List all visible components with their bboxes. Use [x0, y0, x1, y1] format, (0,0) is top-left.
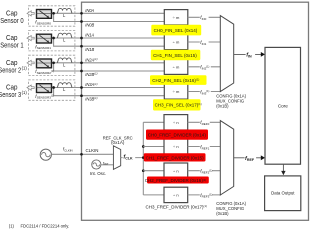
label fREF	[245, 154, 257, 162]
pin dot IN0A	[80, 12, 83, 15]
core box	[265, 47, 301, 164]
wire fREF0	[188, 121, 221, 123]
svg-text:CH2_FREF_DIVIDER (0x16)(1): CH2_FREF_DIVIDER (0x16)(1)	[145, 178, 207, 183]
svg-text:CH3_FREF_DIVIDER (0x17)(1): CH3_FREF_DIVIDER (0x17)(1)	[146, 204, 208, 209]
label fIN1	[200, 39, 209, 44]
mux REF_CLK_SRC	[113, 146, 120, 170]
svg-text:Sensor 2: Sensor 2	[0, 67, 21, 74]
divider box ÷n ch2	[164, 163, 188, 178]
plate arrow 2	[27, 60, 34, 65]
svg-text:Sensor 1: Sensor 1	[0, 43, 23, 50]
node dot 3	[52, 86, 55, 89]
svg-text:÷ n: ÷ n	[173, 144, 179, 149]
inductor L3	[57, 83, 72, 88]
oscillator source fCLKIN	[40, 149, 51, 160]
wire IN1B	[54, 38, 165, 46]
wire fREF3	[188, 194, 221, 196]
node dot 1	[52, 37, 55, 40]
svg-text:CH0_FIN_SEL (0x14): CH0_FIN_SEL (0x14)	[154, 28, 198, 33]
svg-text:÷ n: ÷ n	[173, 193, 179, 198]
svg-text:Cap: Cap	[6, 60, 18, 67]
wire int osc	[101, 164, 114, 166]
highlight CH1_FIN_SEL	[151, 50, 201, 60]
label fREF3	[200, 192, 212, 197]
highlight CH2_FREF_DIVIDER	[145, 177, 209, 184]
wire fIN out	[234, 53, 262, 55]
svg-text:(1): (1)	[22, 90, 28, 95]
int osc circle	[92, 160, 101, 169]
wire IN2B	[54, 63, 165, 71]
wire fREF2	[188, 170, 221, 172]
pin dot IN0B	[80, 20, 83, 23]
sensor dashed box 3	[29, 80, 75, 100]
plate arrow 1	[27, 36, 34, 41]
svg-text:(0x1A): (0x1A)	[111, 140, 125, 145]
svg-text:Cap: Cap	[6, 35, 18, 42]
svg-text:(1): (1)	[22, 66, 28, 71]
svg-text:÷ n: ÷ n	[173, 120, 179, 125]
svg-text:Sensor 3: Sensor 3	[0, 92, 21, 99]
wire fREF out	[234, 157, 262, 159]
data output box	[265, 176, 301, 211]
divider box ÷n ch0	[164, 115, 188, 130]
svg-text:Data Output: Data Output	[271, 190, 295, 195]
svg-text:CH1_FIN_SEL (0x15): CH1_FIN_SEL (0x15)	[153, 53, 197, 58]
label fIN0	[200, 15, 209, 20]
inductor L2	[57, 58, 72, 63]
svg-text:IN1B: IN1B	[85, 47, 94, 52]
mux fREF	[220, 121, 233, 195]
svg-text:÷ n: ÷ n	[173, 168, 179, 173]
svg-text:(0x1B): (0x1B)	[216, 104, 229, 109]
wire CLKIN	[51, 153, 113, 155]
pin dot CLKIN	[80, 153, 83, 156]
sensor dashed box 0	[29, 6, 75, 26]
divider box ÷n ch1	[164, 139, 188, 154]
divider box ÷m ch2	[164, 59, 188, 74]
svg-text:FDC2114 / FDC2214 only.: FDC2114 / FDC2214 only.	[21, 223, 70, 228]
svg-text:IN0B: IN0B	[85, 22, 94, 27]
pin dot IN1B	[80, 45, 83, 48]
svg-text:÷ m: ÷ m	[173, 15, 180, 20]
pin dot IN3A	[80, 86, 83, 89]
label fREF1	[200, 144, 210, 149]
svg-text:Sensor 0: Sensor 0	[0, 18, 23, 25]
wire IN3B	[54, 88, 165, 96]
wire IN0A	[52, 12, 165, 14]
svg-text:(1): (1)	[9, 223, 15, 228]
mux fIN	[220, 16, 233, 92]
wire ÷n ch3 in	[143, 194, 164, 196]
wire IN3A	[52, 87, 165, 89]
svg-text:÷ m: ÷ m	[173, 89, 180, 94]
wire IN1A	[52, 37, 165, 39]
wire fCLK	[121, 157, 144, 159]
cap sensor 2 cell	[27, 55, 164, 75]
wire fIN2	[188, 66, 221, 68]
label fIN2	[200, 64, 211, 69]
divider box ÷n ch3	[164, 187, 188, 202]
pin dot IN1A	[80, 37, 83, 40]
arrow core to data output	[282, 164, 284, 171]
bus junction dots	[142, 145, 145, 148]
divider box ÷m ch0	[164, 10, 188, 25]
wire fIN1	[188, 41, 221, 43]
wire fIN3	[188, 91, 221, 93]
svg-text:Cap: Cap	[6, 10, 18, 17]
sensor dashed box 1	[29, 31, 75, 51]
wire IN0B	[54, 13, 165, 21]
wire ÷n ch0 in	[143, 121, 164, 123]
cap sensor 3 cell	[27, 80, 164, 100]
label fREF2	[200, 168, 212, 173]
highlight CH0_FREF_DIVIDER	[146, 130, 208, 140]
cap sensor 0 cell	[27, 6, 164, 26]
svg-text:÷ m: ÷ m	[173, 65, 180, 70]
highlight CH3_FIN_SEL	[153, 99, 202, 110]
svg-text:Cap: Cap	[6, 85, 18, 92]
svg-text:IN1A: IN1A	[85, 33, 94, 38]
cap sensor 1 cell	[27, 31, 164, 51]
wire ÷n ch1 in	[143, 146, 164, 148]
plate arrow 0	[27, 11, 34, 16]
sensor dashed box 2	[29, 55, 75, 75]
variable capacitor box 2	[37, 59, 52, 68]
pin dot IN3B	[80, 94, 83, 97]
wire ÷n ch2 in	[143, 170, 164, 172]
svg-text:Int. Osc.: Int. Osc.	[90, 171, 106, 176]
chip boundary	[82, 2, 309, 220]
variable capacitor box 3	[37, 84, 52, 93]
highlight CH0_FIN_SEL	[151, 25, 201, 36]
plate arrow 3	[27, 85, 34, 90]
inductor L0	[57, 8, 72, 13]
pin dot IN2A	[80, 61, 83, 64]
pin dot IN2B	[80, 70, 83, 73]
inductor L1	[57, 33, 72, 38]
label fREF0	[200, 120, 210, 125]
wire fIN0	[188, 16, 221, 18]
svg-text:CH2_FIN_SEL (0x16)(1): CH2_FIN_SEL (0x16)(1)	[152, 78, 199, 83]
svg-text:÷ m: ÷ m	[173, 40, 180, 45]
svg-text:Core: Core	[278, 104, 288, 109]
svg-text:IN0A: IN0A	[85, 8, 94, 13]
arrowhead fREF	[261, 155, 265, 160]
svg-text:CLKIN: CLKIN	[86, 148, 99, 153]
label fIN	[246, 50, 256, 58]
divider box ÷m ch3	[164, 84, 188, 99]
svg-text:CH3_FIN_SEL (0x17)(1): CH3_FIN_SEL (0x17)(1)	[155, 102, 202, 107]
highlight CH2_FIN_SEL	[150, 75, 207, 85]
wire fREF1	[188, 146, 221, 148]
label fCLK	[123, 153, 136, 160]
divider box ÷m ch1	[164, 34, 188, 49]
wire IN2A	[52, 62, 165, 64]
label fIN3	[200, 89, 211, 94]
node dot 0	[52, 12, 55, 15]
node dot 2	[52, 61, 55, 64]
arrowhead fIN	[261, 52, 265, 57]
highlight CH1_FREF_DIVIDER	[144, 153, 206, 161]
svg-text:CH1_FREF_DIVIDER (0x15): CH1_FREF_DIVIDER (0x15)	[146, 156, 205, 161]
svg-text:(0x1B): (0x1B)	[216, 211, 229, 216]
fCLK bus	[142, 122, 144, 195]
variable capacitor box 0	[37, 10, 52, 19]
variable capacitor box 1	[37, 34, 52, 43]
svg-text:CH0_FREF_DIVIDER (0x14): CH0_FREF_DIVIDER (0x14)	[148, 133, 207, 138]
